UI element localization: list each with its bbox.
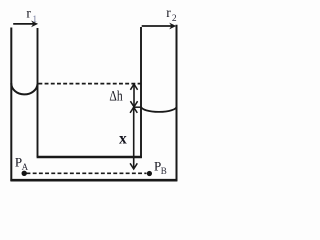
wire: inner wall of right (wide) arm xyxy=(140,27,142,158)
wire: inner wall of left (narrow) arm xyxy=(37,28,39,157)
svg-text:B: B xyxy=(161,166,167,176)
svg-text:r: r xyxy=(26,5,31,20)
node: point P_A dot xyxy=(22,171,27,176)
svg-text:1: 1 xyxy=(32,15,37,25)
svg-text:x: x xyxy=(119,131,127,148)
wire: dashed level line of left meniscus xyxy=(38,83,140,85)
wire: delta-h dimension arrow (double headed, vertical) xyxy=(133,84,135,107)
svg-text:Δh: Δh xyxy=(109,89,123,105)
wire: inner bottom of U-tube xyxy=(37,156,142,159)
wire: dashed line joining P_A and P_B xyxy=(27,172,147,174)
node: r1 arrowhead xyxy=(31,21,38,28)
node: point P_B dot xyxy=(147,171,152,176)
node: meniscus in right wide tube xyxy=(141,106,177,112)
wire: r2 radius arrow shaft xyxy=(142,25,172,27)
wire: level tick from arrow to right tube wall xyxy=(134,106,141,108)
node: meniscus in left narrow tube xyxy=(11,83,37,94)
wire: outer U-tube wall (left arm outer, bottom, right arm outer) xyxy=(11,25,176,180)
svg-text:r: r xyxy=(166,5,171,20)
wire: outer bottom line (thicker) xyxy=(10,179,177,182)
svg-text:2: 2 xyxy=(172,14,177,24)
node: r2 arrowhead xyxy=(169,23,176,30)
wire: r1 radius arrow shaft xyxy=(13,23,33,25)
svg-text:A: A xyxy=(22,162,29,172)
wire: x dimension arrow (double headed, vertical) xyxy=(133,107,135,169)
